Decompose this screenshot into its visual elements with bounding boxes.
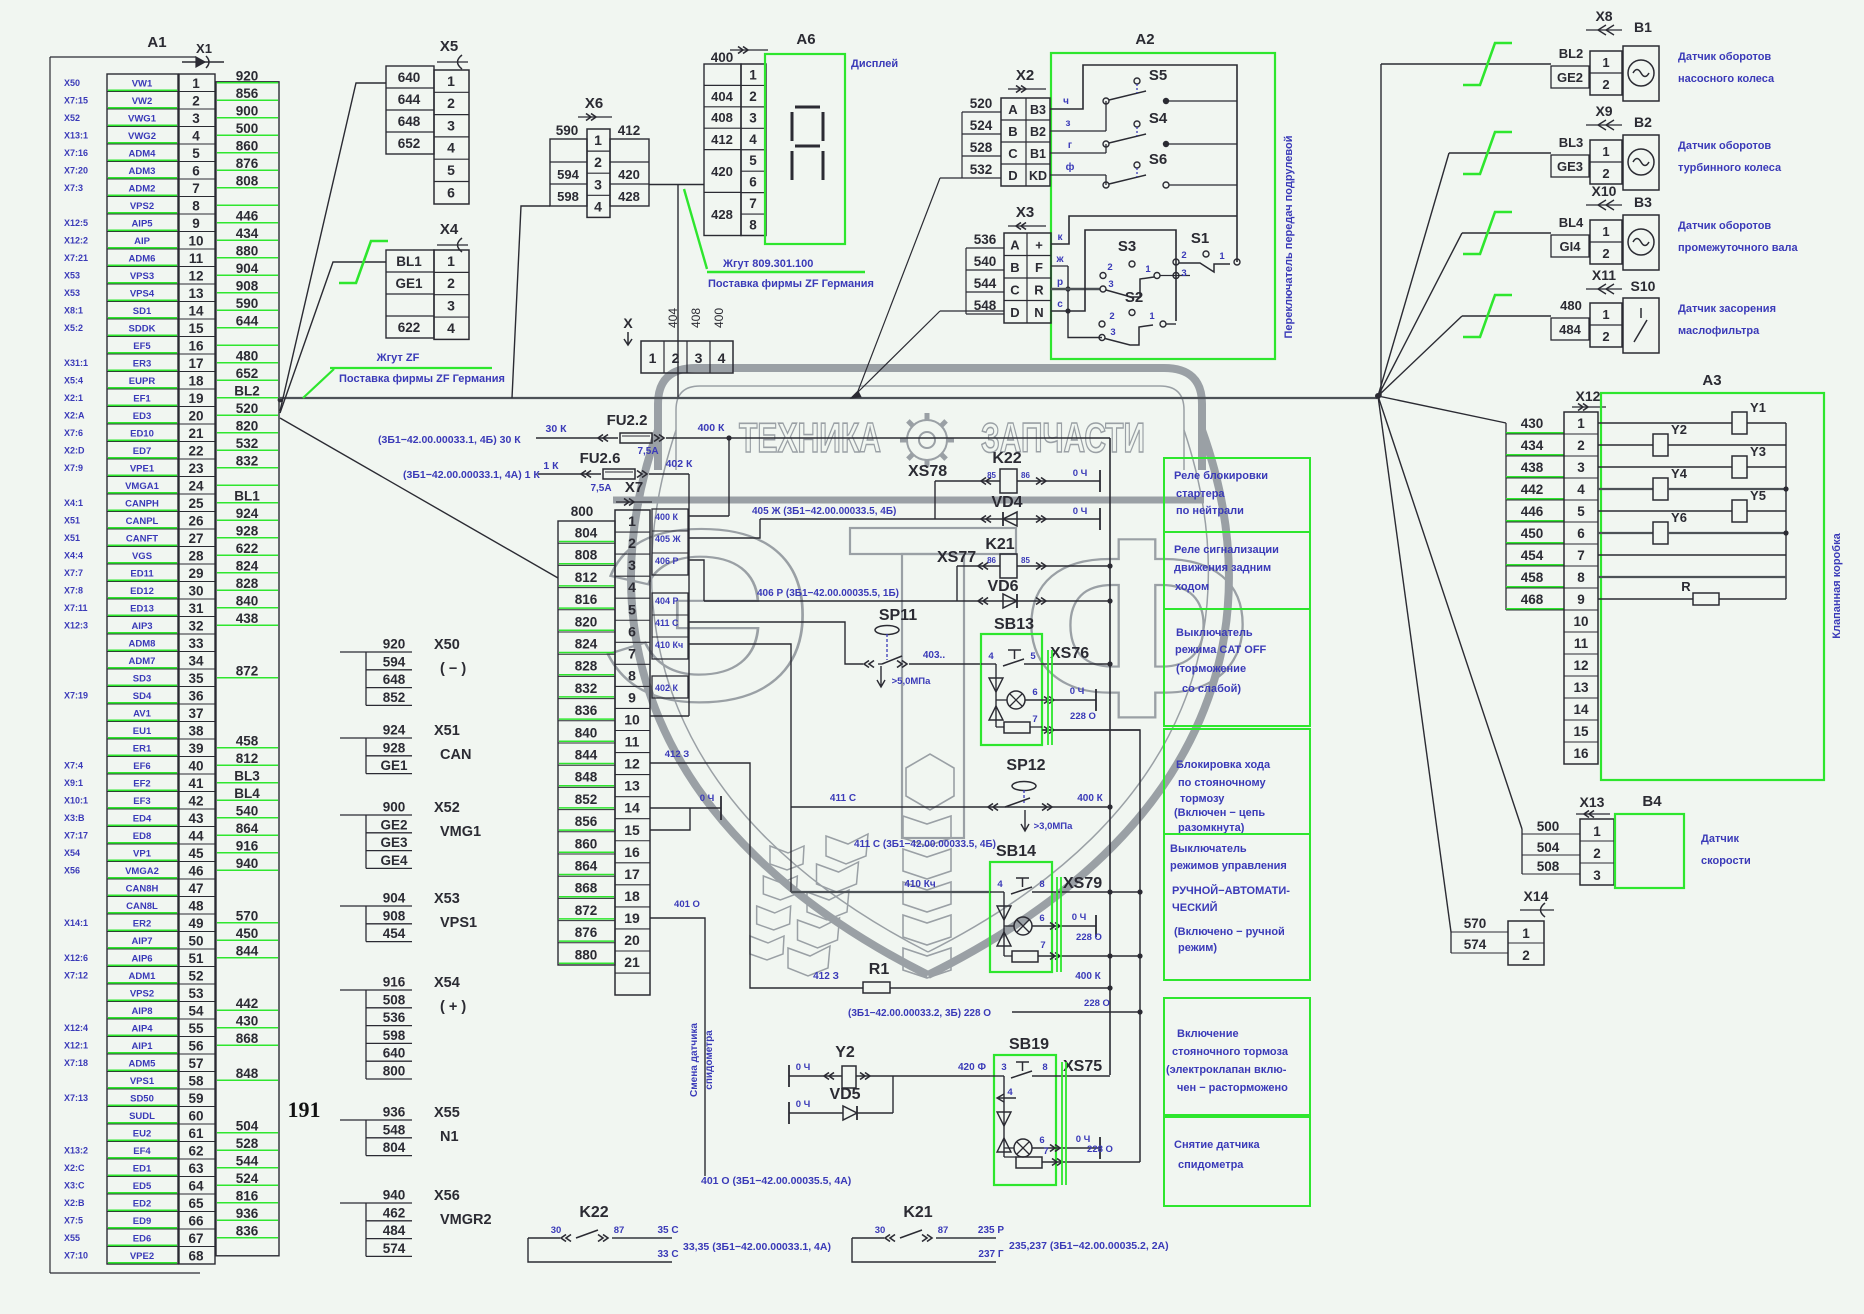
- svg-text:9: 9: [192, 216, 200, 231]
- watermark gear: [907, 420, 947, 460]
- svg-text:868: 868: [575, 881, 598, 896]
- green break mark at X4: [339, 241, 388, 283]
- svg-text:S2: S2: [1125, 289, 1143, 306]
- svg-text:X54: X54: [64, 848, 80, 858]
- svg-text:0 Ч: 0 Ч: [796, 1062, 811, 1073]
- A1 row 24 VMGA1: [107, 493, 178, 495]
- svg-text:458: 458: [236, 733, 259, 748]
- svg-text:AIP3: AIP3: [131, 621, 152, 632]
- svg-text:X53: X53: [434, 891, 460, 907]
- svg-text:X7:20: X7:20: [64, 165, 88, 175]
- svg-text:режимов управления: режимов управления: [1170, 860, 1287, 872]
- svg-text:Датчик оборотов: Датчик оборотов: [1678, 220, 1771, 232]
- svg-text:528: 528: [970, 140, 993, 155]
- svg-text:разомкнута): разомкнута): [1178, 822, 1245, 834]
- A1 wire 528 pin 62: [217, 1149, 278, 1151]
- svg-text:16: 16: [624, 844, 640, 860]
- svg-text:GE3: GE3: [380, 835, 408, 850]
- A1 row 9 AIP5: [107, 231, 178, 233]
- connector X7 pin box: [615, 510, 650, 995]
- A1 wire 532 pin 22: [217, 449, 278, 451]
- svg-text:836: 836: [236, 1223, 259, 1238]
- svg-text:10: 10: [188, 233, 203, 248]
- A1 row 13 VPS4: [107, 301, 178, 303]
- svg-text:Поставка фирмы ZF Германия: Поставка фирмы ZF Германия: [708, 278, 874, 290]
- connector X5 symbol: [437, 61, 468, 63]
- svg-text:+: +: [1035, 238, 1043, 253]
- svg-text:VPS4: VPS4: [130, 288, 155, 299]
- svg-text:X31:1: X31:1: [64, 358, 88, 368]
- A1 row 50 AIP7: [107, 948, 178, 950]
- A1 wire 904 pin 12: [217, 274, 278, 276]
- svg-text:904: 904: [383, 891, 406, 906]
- svg-text:AIP5: AIP5: [131, 218, 153, 229]
- A1 row 14 SD1: [107, 318, 178, 320]
- svg-text:XS76: XS76: [1050, 645, 1089, 662]
- svg-text:23: 23: [188, 461, 204, 476]
- svg-text:15: 15: [624, 822, 640, 838]
- block A3 box: [1601, 393, 1824, 780]
- svg-text:848: 848: [575, 770, 598, 785]
- svg-text:GE4: GE4: [380, 853, 408, 868]
- green note box y834: [1164, 834, 1310, 980]
- svg-text:35: 35: [188, 671, 204, 686]
- svg-text:816: 816: [575, 592, 598, 607]
- svg-text:191: 191: [288, 1097, 321, 1122]
- A2 wire net R row (thick): [1051, 288, 1100, 290]
- svg-text:48: 48: [188, 898, 204, 913]
- wire hub to X14: [1378, 396, 1451, 932]
- svg-text:528: 528: [236, 1136, 259, 1151]
- svg-text:X7:11: X7:11: [64, 603, 88, 613]
- svg-text:405 Ж (3Б1−42.00.00033.5, 4Б): 405 Ж (3Б1−42.00.00033.5, 4Б): [752, 506, 896, 517]
- svg-text:900: 900: [236, 103, 259, 118]
- svg-text:В1: В1: [1030, 147, 1046, 161]
- A2 vertical to S2-3: [1068, 266, 1102, 338]
- connector X13 pin box: [1580, 819, 1614, 885]
- svg-text:868: 868: [236, 1031, 259, 1046]
- svg-text:спидометра: спидометра: [704, 1030, 715, 1090]
- svg-text:12: 12: [188, 268, 203, 283]
- A1 row 56 AIP1: [107, 1053, 178, 1055]
- svg-text:30 К: 30 К: [545, 423, 567, 435]
- svg-text:CANFT: CANFT: [126, 533, 158, 544]
- svg-text:1: 1: [749, 67, 757, 82]
- svg-text:X50: X50: [434, 637, 460, 653]
- svg-text:804: 804: [383, 1140, 406, 1155]
- svg-text:504: 504: [1537, 840, 1560, 855]
- svg-text:400 К: 400 К: [1075, 971, 1101, 982]
- svg-text:20: 20: [188, 408, 203, 423]
- svg-text:>5,0МПа: >5,0МПа: [892, 676, 931, 687]
- watermark letter T: [850, 528, 1016, 554]
- svg-text:43: 43: [188, 811, 204, 826]
- svg-text:45: 45: [188, 846, 204, 861]
- svg-text:Датчик оборотов: Датчик оборотов: [1678, 51, 1771, 63]
- svg-text:14: 14: [624, 800, 640, 816]
- svg-text:6: 6: [628, 623, 636, 639]
- svg-text:Блокировка хода: Блокировка хода: [1176, 759, 1271, 771]
- A1 row 64 ED5: [107, 1193, 178, 1195]
- svg-text:454: 454: [383, 926, 406, 941]
- svg-text:X53: X53: [64, 270, 80, 280]
- A1 row 47 CAN8H: [107, 896, 178, 898]
- svg-text:6: 6: [192, 163, 200, 178]
- svg-text:X12: X12: [1576, 388, 1601, 404]
- svg-text:68: 68: [188, 1248, 204, 1263]
- svg-text:X7:9: X7:9: [64, 463, 83, 473]
- green harness note ZF: [303, 369, 334, 398]
- svg-text:VPS1: VPS1: [130, 1076, 155, 1087]
- svg-text:800: 800: [571, 504, 594, 519]
- X13 wire ladder 500 504 508: [1521, 829, 1523, 874]
- svg-text:EF2: EF2: [133, 778, 150, 789]
- svg-text:30: 30: [188, 583, 203, 598]
- svg-text:27: 27: [188, 531, 203, 546]
- svg-text:ED1: ED1: [133, 1163, 152, 1174]
- A1 row 63 ED1: [107, 1176, 178, 1178]
- svg-text:X7:19: X7:19: [64, 690, 88, 700]
- svg-text:X56: X56: [434, 1188, 460, 1204]
- svg-text:S6: S6: [1149, 151, 1167, 168]
- A1 wire 832 pin 23: [217, 467, 278, 469]
- wire X6 to A6: [649, 184, 704, 186]
- svg-text:B: B: [1010, 260, 1019, 275]
- svg-text:900: 900: [383, 800, 406, 815]
- svg-text:402 К: 402 К: [666, 458, 693, 470]
- svg-text:X52: X52: [434, 800, 460, 816]
- svg-text:X10:1: X10:1: [64, 795, 88, 805]
- svg-text:скорости: скорости: [1701, 855, 1751, 867]
- svg-text:30: 30: [551, 1225, 562, 1236]
- svg-text:Y1: Y1: [1750, 400, 1766, 415]
- svg-text:438: 438: [236, 611, 259, 626]
- SB14 resistor to rail B: [1012, 951, 1038, 962]
- svg-text:C: C: [1008, 146, 1018, 161]
- svg-text:3: 3: [1593, 868, 1601, 883]
- svg-text:4: 4: [594, 198, 602, 214]
- svg-text:A: A: [1010, 238, 1020, 253]
- green harness note 809.301.100: [684, 189, 707, 269]
- svg-text:X7:15: X7:15: [64, 95, 88, 105]
- A1 wire pin 16: [217, 344, 278, 346]
- A1 wire 880 pin 11: [217, 257, 278, 259]
- svg-text:2: 2: [1107, 262, 1112, 273]
- A1 wire 864 pin 44: [217, 834, 278, 836]
- svg-text:X12:4: X12:4: [64, 1023, 88, 1033]
- svg-text:VPE1: VPE1: [130, 463, 155, 474]
- svg-text:6: 6: [1032, 687, 1037, 698]
- svg-text:по нейтрали: по нейтрали: [1176, 505, 1244, 517]
- svg-text:41: 41: [188, 776, 204, 791]
- connector X8 pin box: [1590, 51, 1622, 95]
- A1 wire 520 pin 20: [217, 414, 278, 416]
- svg-text:622: 622: [236, 541, 259, 556]
- svg-text:стояночного тормоза: стояночного тормоза: [1172, 1046, 1289, 1058]
- svg-text:26: 26: [188, 513, 204, 528]
- svg-text:ADM5: ADM5: [129, 1058, 157, 1069]
- svg-text:VP1: VP1: [133, 848, 152, 859]
- svg-text:3: 3: [1108, 279, 1113, 290]
- svg-text:VW2: VW2: [132, 96, 153, 107]
- svg-text:ED13: ED13: [130, 603, 154, 614]
- svg-text:228 О: 228 О: [1070, 711, 1096, 722]
- svg-text:5: 5: [447, 162, 455, 178]
- svg-text:X13: X13: [1580, 794, 1605, 810]
- svg-text:VW1: VW1: [132, 78, 153, 89]
- svg-text:3: 3: [1110, 327, 1115, 338]
- sensor B4 box: [1615, 814, 1684, 888]
- watermark wheat ears: [906, 754, 954, 810]
- A1 wire pin 8: [217, 204, 278, 206]
- svg-text:р: р: [1057, 277, 1063, 288]
- svg-text:1: 1: [447, 73, 455, 89]
- svg-text:со слабой): со слабой): [1182, 683, 1241, 695]
- svg-text:X5:4: X5:4: [64, 375, 83, 385]
- A1 wire 900 pin 3: [217, 117, 278, 119]
- svg-text:57: 57: [188, 1056, 203, 1071]
- svg-text:5: 5: [1577, 504, 1585, 519]
- connector X9 pin box: [1590, 140, 1622, 184]
- svg-text:1: 1: [649, 350, 657, 366]
- svg-text:ER2: ER2: [133, 918, 151, 929]
- A1 pin column box: [179, 74, 215, 1264]
- svg-text:VD6: VD6: [987, 578, 1018, 595]
- svg-text:13: 13: [624, 778, 640, 794]
- A1 row 44 ED8: [107, 843, 178, 845]
- svg-text:EF5: EF5: [133, 341, 151, 352]
- svg-text:1: 1: [447, 253, 455, 269]
- svg-text:VMGA1: VMGA1: [125, 481, 160, 492]
- svg-text:BL3: BL3: [234, 768, 260, 783]
- svg-text:51: 51: [188, 951, 204, 966]
- svg-text:64: 64: [188, 1178, 204, 1193]
- svg-text:VMGR2: VMGR2: [440, 1212, 492, 1228]
- svg-text:г: г: [1068, 140, 1072, 151]
- A1 row 29 ED11: [107, 581, 178, 583]
- svg-text:11: 11: [1574, 636, 1589, 651]
- svg-text:B3: B3: [1634, 194, 1652, 210]
- rail B 228O: [1042, 730, 1140, 1162]
- svg-text:4: 4: [1577, 482, 1585, 497]
- svg-text:BL3: BL3: [1559, 135, 1584, 150]
- svg-text:544: 544: [974, 276, 997, 291]
- wire A1 to X5: [280, 83, 386, 411]
- svg-text:2: 2: [1602, 329, 1609, 344]
- svg-text:7: 7: [628, 645, 636, 661]
- svg-text:CANPH: CANPH: [125, 498, 159, 509]
- svg-text:438: 438: [1521, 460, 1544, 475]
- connector X5 pin box: [434, 70, 469, 204]
- svg-text:2: 2: [447, 275, 455, 291]
- svg-text:X50: X50: [64, 78, 80, 88]
- A1 row 43 ED4: [107, 826, 178, 828]
- svg-text:ф: ф: [1066, 161, 1075, 173]
- svg-text:8: 8: [1577, 570, 1585, 585]
- wire hub to X13: [1378, 396, 1522, 829]
- svg-text:X2:C: X2:C: [64, 1163, 85, 1173]
- svg-text:X1: X1: [196, 41, 212, 56]
- svg-text:3: 3: [1181, 268, 1186, 279]
- svg-text:VPS2: VPS2: [130, 201, 154, 212]
- svg-text:S5: S5: [1149, 67, 1167, 84]
- svg-text:X7:8: X7:8: [64, 585, 83, 595]
- A3 wire pin8 (thick): [1598, 576, 1786, 578]
- A1 row 65 ED2: [107, 1211, 178, 1213]
- X7 right wire label boxes: [652, 509, 688, 575]
- svg-text:434: 434: [1521, 438, 1544, 453]
- svg-text:ED7: ED7: [133, 446, 151, 457]
- A1 row 59 SD50: [107, 1106, 178, 1108]
- svg-text:BL1: BL1: [396, 254, 422, 269]
- svg-text:ED12: ED12: [130, 586, 154, 597]
- svg-text:8: 8: [628, 667, 636, 683]
- A1 row 21 ED10: [107, 441, 178, 443]
- svg-text:7: 7: [1032, 714, 1037, 725]
- svg-text:XS75: XS75: [1063, 1058, 1102, 1075]
- svg-text:65: 65: [188, 1196, 204, 1211]
- A1 wire 820 pin 21: [217, 432, 278, 434]
- svg-text:59: 59: [188, 1091, 203, 1106]
- svg-text:промежуточного вала: промежуточного вала: [1678, 242, 1798, 254]
- connector A6 pin box: [741, 64, 766, 236]
- svg-text:ED11: ED11: [130, 568, 154, 579]
- A1 wire 500 pin 4: [217, 134, 278, 136]
- svg-text:844: 844: [236, 943, 259, 958]
- A1 row 52 ADM1: [107, 983, 178, 985]
- svg-text:FU2.2: FU2.2: [607, 412, 648, 429]
- A1 row 7 ADM2: [107, 196, 178, 198]
- connector X pin boxes 1-4: [641, 341, 733, 373]
- svg-text:ADM2: ADM2: [129, 183, 156, 194]
- svg-text:468: 468: [1521, 592, 1544, 607]
- svg-text:6: 6: [1577, 526, 1585, 541]
- svg-text:480: 480: [1560, 298, 1582, 313]
- svg-text:X8:1: X8:1: [64, 305, 83, 315]
- svg-text:A1: A1: [147, 34, 166, 51]
- svg-text:598: 598: [557, 189, 579, 204]
- connector A1 outer bracket: [50, 56, 196, 58]
- A1 row 36 SD4: [107, 703, 178, 705]
- connector X6 symbol: [578, 116, 612, 118]
- svg-text:428: 428: [618, 189, 640, 204]
- svg-text:55: 55: [188, 1021, 204, 1036]
- svg-text:402 К: 402 К: [655, 683, 679, 693]
- svg-text:Клапанная коробка: Клапанная коробка: [1831, 532, 1843, 638]
- svg-text:808: 808: [575, 548, 598, 563]
- svg-text:590: 590: [236, 296, 259, 311]
- svg-text:0 Ч: 0 Ч: [1073, 468, 1088, 479]
- svg-text:403..: 403..: [923, 650, 945, 661]
- svg-text:524: 524: [970, 118, 993, 133]
- svg-text:908: 908: [383, 908, 406, 923]
- svg-text:908: 908: [236, 278, 259, 293]
- svg-text:228 О: 228 О: [1087, 1144, 1113, 1155]
- svg-text:7,5А: 7,5А: [637, 446, 658, 457]
- green break mark B3: [1463, 212, 1512, 254]
- solenoid valve Y6: [1598, 532, 1653, 534]
- svg-text:648: 648: [398, 114, 421, 129]
- svg-text:SP11: SP11: [879, 607, 917, 624]
- A1 wire 908 pin 13: [217, 292, 278, 294]
- A1 row 19 EF1: [107, 406, 178, 408]
- svg-text:VPS3: VPS3: [130, 271, 154, 282]
- sensor S10 box: [1623, 298, 1659, 353]
- svg-text:ER3: ER3: [133, 358, 151, 369]
- svg-text:33: 33: [188, 636, 204, 651]
- svg-text:7: 7: [1040, 940, 1045, 951]
- A1 row 37 AV1: [107, 721, 178, 723]
- A1 row 22 ED7: [107, 458, 178, 460]
- X3 wire ladder 536 540 544 548: [966, 247, 1004, 249]
- A1 wire 924 pin 26: [217, 519, 278, 521]
- svg-text:X51: X51: [434, 723, 460, 739]
- svg-text:Y2: Y2: [1671, 422, 1687, 437]
- svg-text:4: 4: [447, 140, 455, 156]
- svg-text:BL4: BL4: [234, 786, 260, 801]
- svg-text:K22: K22: [579, 1204, 608, 1221]
- svg-text:14: 14: [188, 303, 204, 318]
- svg-text:Y4: Y4: [1671, 466, 1688, 481]
- svg-text:ED2: ED2: [133, 1198, 151, 1209]
- svg-text:B4: B4: [1642, 793, 1662, 810]
- svg-text:Смена датчика: Смена датчика: [689, 1023, 700, 1097]
- svg-text:2: 2: [1593, 846, 1601, 861]
- svg-text:404: 404: [711, 89, 733, 104]
- svg-text:11: 11: [189, 251, 204, 266]
- svg-text:86: 86: [987, 556, 996, 565]
- svg-text:916: 916: [236, 838, 259, 853]
- svg-text:400: 400: [712, 308, 726, 328]
- svg-text:504: 504: [236, 1118, 259, 1133]
- svg-text:13: 13: [188, 286, 204, 301]
- svg-text:AIP6: AIP6: [131, 953, 152, 964]
- wire hub to B2: [1378, 153, 1449, 396]
- svg-text:B: B: [1008, 124, 1017, 139]
- A1 row 31 ED13: [107, 616, 178, 618]
- svg-text:X7:10: X7:10: [64, 1250, 88, 1260]
- svg-text:движения задним: движения задним: [1174, 562, 1271, 574]
- svg-text:864: 864: [236, 821, 259, 836]
- svg-text:3: 3: [447, 298, 455, 314]
- svg-text:3: 3: [192, 111, 200, 126]
- svg-text:SD1: SD1: [133, 306, 152, 317]
- svg-text:524: 524: [236, 1171, 259, 1186]
- svg-text:852: 852: [383, 690, 406, 705]
- svg-text:2: 2: [1577, 438, 1585, 453]
- svg-text:544: 544: [236, 1153, 259, 1168]
- svg-text:40: 40: [188, 758, 203, 773]
- svg-text:2: 2: [628, 535, 636, 551]
- svg-text:X51: X51: [64, 515, 80, 525]
- A1 wire 860 pin 5: [217, 152, 278, 154]
- svg-text:C: C: [1010, 283, 1020, 298]
- svg-text:VMG1: VMG1: [440, 824, 481, 840]
- A1 row 35 SD3: [107, 686, 178, 688]
- SB13 internal valves and lamp: [989, 678, 1003, 692]
- svg-text:17: 17: [624, 866, 640, 882]
- A1 row 62 EF4: [107, 1158, 178, 1160]
- A1 wire 540 pin 43: [217, 817, 278, 819]
- svg-text:15: 15: [188, 321, 204, 336]
- connector X2 symbol: [1008, 88, 1046, 90]
- svg-text:BL1: BL1: [234, 488, 260, 503]
- svg-text:28: 28: [188, 548, 204, 563]
- svg-text:Жгут ZF: Жгут ZF: [376, 352, 420, 364]
- A1 row 45 VP1: [107, 861, 178, 863]
- svg-text:824: 824: [575, 637, 598, 652]
- svg-text:стартера: стартера: [1176, 488, 1225, 500]
